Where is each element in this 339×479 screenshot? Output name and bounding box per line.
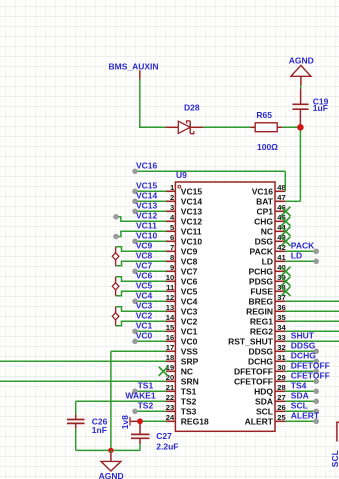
svg-text:LD: LD xyxy=(262,256,273,266)
U9 pin 33 (RST_SHUT) xyxy=(228,333,286,347)
svg-text:VC10: VC10 xyxy=(136,231,158,241)
net label WAKE1 xyxy=(125,391,155,401)
U9 pin 35 (REG1) xyxy=(250,313,287,327)
wire TS2 xyxy=(135,410,166,412)
wire junction down to U9 pin 47 BAT xyxy=(299,127,301,201)
svg-text:VC5: VC5 xyxy=(181,286,198,296)
svg-text:REG1: REG1 xyxy=(250,316,273,326)
svg-text:16: 16 xyxy=(166,333,174,342)
net port dot VC14 xyxy=(132,199,138,205)
U9 pin 25 (ALERT) xyxy=(245,413,287,427)
net label VC10 xyxy=(136,231,158,241)
capacitor C27 xyxy=(131,421,150,444)
no-connect pin 45 xyxy=(281,217,290,226)
junction REG18/C27/1V8 xyxy=(137,418,143,424)
U9 pin 11 (VC5) xyxy=(166,283,198,297)
svg-text:41: 41 xyxy=(277,253,286,262)
wire BMS_AUXIN horizontal to D28 anode xyxy=(139,126,165,128)
net port dot TS1 xyxy=(132,389,138,395)
net label TS1 xyxy=(138,381,154,391)
svg-text:C27: C27 xyxy=(156,431,172,441)
wire VC12 jog xyxy=(116,217,166,222)
svg-text:22: 22 xyxy=(166,393,174,402)
net port dot VC11 xyxy=(113,234,119,240)
svg-text:2: 2 xyxy=(170,193,174,202)
svg-text:DFETOFF: DFETOFF xyxy=(234,366,273,376)
wire VC8 xyxy=(116,261,166,266)
svg-text:12: 12 xyxy=(166,293,174,302)
svg-text:VC15: VC15 xyxy=(136,181,158,191)
svg-text:28: 28 xyxy=(277,383,285,392)
svg-text:15: 15 xyxy=(166,323,175,332)
svg-text:23: 23 xyxy=(166,403,174,412)
U9 pin 9 (VC7) xyxy=(166,263,198,277)
net label PACK xyxy=(291,240,315,250)
svg-text:VC13: VC13 xyxy=(181,206,203,216)
net label SHUT xyxy=(291,330,315,340)
wire CFETOFF xyxy=(285,380,316,382)
net label CFETOFF xyxy=(291,370,330,380)
wire SHUT xyxy=(285,340,339,342)
U9 pin 45 (CHG) xyxy=(254,213,286,227)
svg-text:35: 35 xyxy=(277,313,286,322)
wire WAKE1 xyxy=(76,400,166,402)
net label VC8 xyxy=(136,251,153,261)
wire VC2 xyxy=(116,321,166,326)
svg-text:DSG: DSG xyxy=(255,236,274,246)
U9 pin 15 (VC1) xyxy=(166,323,198,337)
svg-text:VC10: VC10 xyxy=(181,236,203,246)
svg-text:CP1: CP1 xyxy=(256,206,273,216)
net label DFETOFF xyxy=(291,360,330,370)
U9 pin 26 (SCL) xyxy=(256,403,286,417)
svg-text:DCHG: DCHG xyxy=(248,356,273,366)
U9 pin 12 (VC4) xyxy=(166,293,198,307)
svg-text:33: 33 xyxy=(277,333,285,342)
U9 pin 34 (REG2) xyxy=(250,323,287,337)
svg-text:VC4: VC4 xyxy=(181,296,198,306)
U9 pin 24 (REG18) xyxy=(166,413,209,427)
svg-text:VC3: VC3 xyxy=(181,306,198,316)
wire SRN xyxy=(0,380,166,382)
U9 pin 47 (BAT) xyxy=(256,193,286,207)
net label DDSG xyxy=(291,340,316,350)
svg-text:VC1: VC1 xyxy=(181,326,198,336)
svg-text:PCHG: PCHG xyxy=(248,266,273,276)
U9 pin 17 (VSS) xyxy=(166,343,198,357)
wire C27 down xyxy=(139,444,141,450)
svg-text:SRP: SRP xyxy=(181,356,199,366)
U9 pin 6 (VC10) xyxy=(166,233,202,247)
wire BMS_AUXIN vertical xyxy=(139,79,141,128)
net label VC15 xyxy=(136,181,158,191)
U9 pin 20 (SRN) xyxy=(166,373,199,387)
U9 pin 4 (VC12) xyxy=(166,213,202,227)
svg-text:VC8: VC8 xyxy=(181,256,198,266)
no-connect pin 19 xyxy=(159,367,168,376)
wire VC10 xyxy=(135,240,166,242)
wire SDA xyxy=(285,400,316,402)
svg-text:VC14: VC14 xyxy=(136,191,158,201)
svg-text:1v8: 1v8 xyxy=(120,415,130,429)
svg-text:3: 3 xyxy=(170,203,174,212)
svg-text:10: 10 xyxy=(166,273,174,282)
svg-text:TS1: TS1 xyxy=(181,386,197,396)
svg-text:LD: LD xyxy=(291,250,302,260)
wire VC7 xyxy=(135,270,166,272)
svg-text:42: 42 xyxy=(277,243,285,252)
svg-text:VC7: VC7 xyxy=(181,266,198,276)
svg-text:BREG: BREG xyxy=(248,296,273,306)
wire VC11 jog xyxy=(116,231,166,236)
svg-text:DCHG: DCHG xyxy=(291,350,316,360)
U9 pin 46 (CP1) xyxy=(256,203,285,217)
svg-text:VC12: VC12 xyxy=(181,216,203,226)
svg-text:SRN: SRN xyxy=(181,376,199,386)
U9 pin 42 (PACK) xyxy=(250,243,286,256)
no-connect pin 43 xyxy=(281,237,290,246)
U9 pin 29 (CFETOFF) xyxy=(234,373,286,387)
svg-text:2.2uF: 2.2uF xyxy=(156,441,178,451)
svg-text:13: 13 xyxy=(166,303,174,312)
U9 pin 38 (FUSE) xyxy=(250,283,285,297)
svg-text:PACK: PACK xyxy=(250,246,274,256)
wire VC0 xyxy=(135,340,166,342)
svg-text:VC16: VC16 xyxy=(252,186,274,196)
U9 pin 18 (SRP) xyxy=(166,353,199,367)
svg-text:DFETOFF: DFETOFF xyxy=(291,360,330,370)
svg-text:WAKE1: WAKE1 xyxy=(125,391,155,401)
U9 pin 30 (DFETOFF) xyxy=(234,363,286,377)
svg-text:NC: NC xyxy=(261,226,273,236)
capacitor C26 xyxy=(67,415,85,429)
net label VC1 xyxy=(136,321,153,331)
svg-text:REGIN: REGIN xyxy=(246,306,273,316)
wire SRP xyxy=(0,360,166,362)
net label LD xyxy=(291,250,302,260)
U9 pin 36 (REGIN) xyxy=(246,303,286,317)
svg-text:7: 7 xyxy=(170,243,174,252)
U9 pin 41 (LD) xyxy=(262,253,287,267)
U9 pin 28 (HDQ) xyxy=(254,383,286,397)
svg-text:PACK: PACK xyxy=(291,240,315,250)
diode D28 xyxy=(165,121,203,134)
wire down to AGND xyxy=(110,450,112,453)
wire VC1 xyxy=(135,330,166,332)
svg-text:1uF: 1uF xyxy=(313,103,328,113)
junction BAT/R65/C19 xyxy=(297,124,304,131)
net port dot DCHG xyxy=(313,359,319,365)
svg-text:VC0: VC0 xyxy=(181,336,198,346)
U9 pin 13 (VC3) xyxy=(166,303,198,317)
svg-text:21: 21 xyxy=(166,383,175,392)
net label TS2 xyxy=(138,401,154,411)
svg-text:8: 8 xyxy=(170,253,174,262)
svg-text:14: 14 xyxy=(166,313,175,322)
U9 pin 16 (VC0) xyxy=(166,333,198,347)
svg-text:31: 31 xyxy=(277,353,286,362)
U9 pin 27 (SDA) xyxy=(255,393,286,407)
net label VC7 xyxy=(136,261,153,271)
net port dot DFETOFF xyxy=(313,369,319,375)
svg-text:36: 36 xyxy=(277,303,285,312)
wire REG1 xyxy=(285,320,339,322)
svg-text:SCL: SCL xyxy=(330,450,339,467)
svg-text:25: 25 xyxy=(277,413,286,422)
capacitor C19 xyxy=(292,89,308,128)
wire DCHG xyxy=(285,360,316,362)
no-connect pin 46 xyxy=(281,207,290,216)
svg-text:SHUT: SHUT xyxy=(291,330,315,340)
svg-text:TS1: TS1 xyxy=(138,381,154,391)
net label VC3 xyxy=(136,301,153,311)
pin 1 indicator circle xyxy=(178,185,181,188)
svg-text:DDSG: DDSG xyxy=(248,346,273,356)
net label VC0 xyxy=(136,331,153,341)
net label VC16 xyxy=(136,161,158,171)
svg-text:CFETOFF: CFETOFF xyxy=(291,370,330,380)
wire REG2 xyxy=(285,330,339,332)
svg-text:18: 18 xyxy=(166,353,174,362)
net port dot VC7 xyxy=(132,269,138,275)
wire VC3 xyxy=(116,307,166,312)
net label SDA xyxy=(291,390,309,400)
net label VC4 xyxy=(136,291,153,301)
svg-text:37: 37 xyxy=(277,293,285,302)
svg-text:CFETOFF: CFETOFF xyxy=(234,376,273,386)
svg-text:VC6: VC6 xyxy=(136,271,153,281)
svg-text:SDA: SDA xyxy=(291,390,309,400)
wire PACK xyxy=(285,250,316,252)
U9 pin 48 (VC16) xyxy=(252,183,286,197)
net port dot SCL xyxy=(313,409,319,415)
svg-text:REG2: REG2 xyxy=(250,326,273,336)
net label 1V8 (rotated) xyxy=(120,415,140,429)
junction ground xyxy=(108,448,113,453)
wire DDSG xyxy=(285,350,316,352)
wire ALERT xyxy=(285,420,316,422)
svg-text:VC15: VC15 xyxy=(181,186,203,196)
net label VC13 xyxy=(136,201,158,211)
U9 pin 40 (PCHG) xyxy=(248,263,285,277)
resistor R65 xyxy=(250,123,282,132)
net port dot VC16 xyxy=(132,169,138,175)
net port dot TS4 xyxy=(313,389,319,395)
net port dot VC0 xyxy=(132,339,138,345)
no-connect pin 44 xyxy=(281,227,290,236)
wire C26 down xyxy=(75,428,77,450)
net label VC12 xyxy=(136,211,158,221)
net label VC9 xyxy=(136,241,153,251)
svg-text:TS4: TS4 xyxy=(291,380,307,390)
net label VC11 xyxy=(136,221,157,231)
wire LD xyxy=(285,260,316,262)
svg-text:PDSG: PDSG xyxy=(249,276,273,286)
IC U9 BQ76952 xyxy=(175,182,275,431)
no-connect pin 38 xyxy=(281,287,290,296)
U9 pin 14 (VC2) xyxy=(166,313,198,327)
U9 pin 2 (VC14) xyxy=(166,193,202,207)
U9 pin 32 (DDSG) xyxy=(248,343,285,357)
svg-text:VC6: VC6 xyxy=(181,276,198,286)
net port dot SDA xyxy=(313,399,319,405)
net port dot TS2 xyxy=(132,409,138,415)
svg-text:11: 11 xyxy=(166,283,175,292)
net port dot ALERT xyxy=(313,419,319,425)
U9 pin 10 (VC6) xyxy=(166,273,198,287)
wire VC9 xyxy=(116,247,166,252)
wire BREG xyxy=(285,300,339,302)
U9 pin 43 (DSG) xyxy=(255,233,286,247)
svg-text:VC9: VC9 xyxy=(136,241,153,251)
net label DCHG xyxy=(291,350,316,360)
svg-text:VC0: VC0 xyxy=(136,331,153,341)
svg-text:SDA: SDA xyxy=(255,396,273,406)
svg-text:47: 47 xyxy=(277,193,285,202)
svg-text:VC16: VC16 xyxy=(136,161,158,171)
svg-text:FUSE: FUSE xyxy=(250,286,273,296)
net label BMS_AUXIN xyxy=(109,61,159,79)
U9 pin 22 (TS2) xyxy=(166,393,197,407)
net port dot VC10 xyxy=(132,239,138,245)
svg-text:VC12: VC12 xyxy=(136,211,158,221)
net label VC14 xyxy=(136,191,158,201)
no-connect pin 40 xyxy=(281,267,290,276)
svg-text:27: 27 xyxy=(277,393,285,402)
wire TS1 xyxy=(135,390,166,392)
svg-text:SCL: SCL xyxy=(256,406,273,416)
svg-text:48: 48 xyxy=(277,183,285,192)
wire VC6 xyxy=(116,277,166,282)
wire VC16 xyxy=(135,170,285,172)
svg-text:DDSG: DDSG xyxy=(291,340,316,350)
svg-text:VC9: VC9 xyxy=(181,246,198,256)
svg-text:TS2: TS2 xyxy=(138,401,154,411)
wire DFETOFF xyxy=(285,370,316,372)
net label TS4 xyxy=(291,380,307,390)
diamond symbol D3 between VC3/VC2 xyxy=(112,307,119,326)
svg-text:100Ω: 100Ω xyxy=(257,142,278,152)
net port dot VC4 xyxy=(132,299,138,305)
net port dot CFETOFF xyxy=(313,379,319,385)
wire VC15 xyxy=(135,190,166,192)
U9 pin 3 (VC13) xyxy=(166,203,202,217)
svg-text:6: 6 xyxy=(170,233,174,242)
wire R65 to junction xyxy=(282,126,300,128)
wire D28 cathode to R65 xyxy=(203,126,250,128)
wire VC5 xyxy=(116,291,166,296)
wire AGND to C19 xyxy=(300,86,302,89)
diamond symbol D1 between VC9/VC8 xyxy=(112,247,119,266)
svg-text:29: 29 xyxy=(277,373,285,382)
svg-text:VC14: VC14 xyxy=(181,196,203,206)
diamond symbol D2 between VC6/VC5 xyxy=(112,277,119,296)
svg-text:24: 24 xyxy=(166,413,175,422)
wire ground bus xyxy=(76,449,140,451)
svg-text:26: 26 xyxy=(277,403,285,412)
component box fragment (bottom right) xyxy=(337,422,339,441)
svg-text:VC11: VC11 xyxy=(136,221,157,231)
wire VC4 xyxy=(135,300,166,302)
svg-text:VC11: VC11 xyxy=(181,226,202,236)
U9 pin 7 (VC9) xyxy=(166,243,198,256)
wire SCL xyxy=(285,410,316,412)
svg-text:TS2: TS2 xyxy=(181,396,197,406)
U9 pin 23 (TS3) xyxy=(166,403,197,417)
wire VSS xyxy=(111,350,166,352)
svg-text:CHG: CHG xyxy=(254,216,273,226)
net port dot LD xyxy=(313,259,319,265)
net port dot DDSG xyxy=(313,349,319,355)
svg-text:30: 30 xyxy=(277,363,285,372)
svg-text:NC: NC xyxy=(181,366,193,376)
net port dot VC12 xyxy=(113,214,119,220)
svg-text:D28: D28 xyxy=(184,102,200,112)
svg-text:R65: R65 xyxy=(256,110,272,120)
no-connect pin 39 xyxy=(281,277,290,286)
svg-text:VC2: VC2 xyxy=(181,316,198,326)
net port dot PACK xyxy=(313,249,319,255)
net label VC5 xyxy=(136,281,153,291)
svg-text:17: 17 xyxy=(166,343,174,352)
svg-text:AGND: AGND xyxy=(99,471,124,479)
U9 pin 19 (NC) xyxy=(166,363,193,377)
net port dot VC15 xyxy=(132,189,138,195)
svg-text:TS3: TS3 xyxy=(181,406,197,416)
power symbol AGND (top) xyxy=(291,65,311,85)
net label VC2 xyxy=(136,311,153,321)
svg-text:BAT: BAT xyxy=(256,196,274,206)
net port dot VC1 xyxy=(132,329,138,335)
svg-text:9: 9 xyxy=(170,263,174,272)
wire REGIN xyxy=(285,310,339,312)
svg-text:HDQ: HDQ xyxy=(254,386,273,396)
net label SCL xyxy=(291,400,308,410)
wire VC13 xyxy=(135,210,166,212)
U9 pin 5 (VC11) xyxy=(166,223,202,237)
svg-text:AGND: AGND xyxy=(289,56,314,66)
power symbol AGND (bottom) xyxy=(101,453,121,472)
net label ALERT xyxy=(291,410,320,420)
svg-text:ALERT: ALERT xyxy=(245,416,274,426)
U9 pin 37 (BREG) xyxy=(248,293,285,307)
wire WAKE1 down to C26 xyxy=(75,401,77,414)
svg-text:RST_SHUT: RST_SHUT xyxy=(228,336,274,346)
svg-text:34: 34 xyxy=(277,323,286,332)
svg-text:REG18: REG18 xyxy=(181,416,209,426)
svg-text:1nF: 1nF xyxy=(92,425,107,435)
net port dot VC13 xyxy=(132,209,138,215)
U9 pin 21 (TS1) xyxy=(166,383,197,397)
U9 pin 1 (VC15) xyxy=(166,183,202,197)
svg-text:VC3: VC3 xyxy=(136,301,153,311)
svg-text:VSS: VSS xyxy=(181,346,198,356)
wire REG18 xyxy=(140,420,166,422)
svg-text:32: 32 xyxy=(277,343,285,352)
svg-text:VC13: VC13 xyxy=(136,201,158,211)
svg-text:SCL: SCL xyxy=(291,400,308,410)
U9 pin 8 (VC8) xyxy=(166,253,198,267)
wire VSS vertical to AGND xyxy=(110,351,112,450)
U9 pin 39 (PDSG) xyxy=(249,273,286,287)
net label VC6 xyxy=(136,271,153,281)
U9 pin 44 (NC) xyxy=(261,223,287,237)
svg-text:BMS_AUXIN: BMS_AUXIN xyxy=(109,61,159,71)
U9 pin 31 (DCHG) xyxy=(248,353,287,367)
wire VC14 xyxy=(135,200,166,202)
wire TS4 xyxy=(285,390,316,392)
